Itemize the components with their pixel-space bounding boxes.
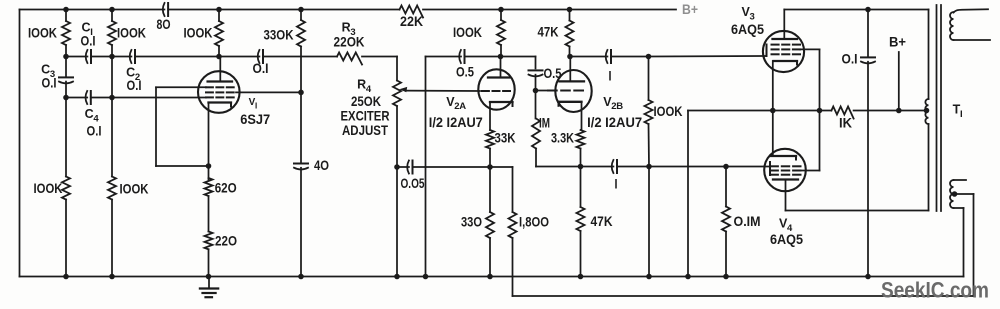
- wire 0.05 to cathode node (crosses x425.5): [413, 166, 491, 168]
- V3 plate bar: [773, 38, 798, 40]
- capacitor 0.5 no.1: [459, 50, 461, 63]
- resistor 100K no.1: [62, 21, 70, 45]
- svg-text:IOOK: IOOK: [184, 25, 213, 41]
- wire 1M down from grid node: [535, 91, 537, 119]
- capacitor 0.05: [407, 161, 409, 174]
- wire y166.5 to 0.1M node (crosses x688): [649, 166, 726, 168]
- wire top rail segment 1: [20, 9, 165, 11]
- wire suppressor to cathode node: [156, 165, 209, 167]
- wire 40 cap to ground rail: [300, 168, 302, 277]
- potentiometer R4 250K EXCITER ADJUST: [393, 81, 401, 106]
- V3 screen lead right: [800, 48, 820, 50]
- capacitor 40: [294, 163, 308, 165]
- wire y97.5 node to C4: [66, 97, 87, 99]
- wire 1K to B+/center tap: [854, 110, 924, 112]
- resistor 220: [205, 232, 213, 250]
- node B+ lead: [896, 108, 902, 114]
- node x112 y97.5: [109, 95, 115, 101]
- wire 0.1M to ground: [725, 232, 727, 277]
- resistor 1M: [532, 119, 540, 149]
- V1 grid row 2 (screen): [206, 91, 213, 93]
- tube V2B 1/2 12AU7 envelope: [555, 70, 591, 112]
- svg-text:4O: 4O: [314, 157, 329, 173]
- svg-text:IOOK: IOOK: [453, 24, 482, 40]
- wire 220 to ground rail: [208, 249, 210, 276]
- svg-text:22O: 22O: [215, 232, 237, 248]
- wire V3 plate top rail to T1: [784, 9, 928, 11]
- node cathodes y110.5: [770, 108, 776, 114]
- T1 core line 1: [936, 5, 938, 211]
- V3 grid row1: [772, 44, 779, 46]
- T1 secondary bottom lead: [954, 207, 964, 209]
- wire V2B plate to 1uF cap: [570, 56, 607, 58]
- wire 0.1 cap to R3: [263, 56, 337, 58]
- node top rail 47K: [567, 7, 573, 13]
- resistor 0.1M (V4 grid leak): [722, 207, 730, 232]
- node V3 grid / 100K: [646, 54, 652, 60]
- resistor 100K no.6: [108, 177, 116, 200]
- node T1 secondary tap: [952, 191, 958, 197]
- svg-text:22K: 22K: [400, 13, 423, 29]
- V1 grid row 1 (suppressor): [206, 86, 213, 88]
- V2B plate lead: [569, 57, 571, 82]
- capacitor 0.5 no.2: [529, 69, 543, 71]
- V1 screen wire to 330K line: [236, 91, 301, 93]
- wire 0.1 cap down to ground (crosses y110.5 and y210.5): [867, 62, 869, 277]
- svg-text:6SJ7: 6SJ7: [240, 111, 270, 127]
- wire node to 1800 top corner: [490, 166, 513, 168]
- V3 grid row2 (screen): [772, 48, 779, 50]
- wire between 620 and 220: [208, 196, 210, 232]
- V3 grid row3: [772, 53, 779, 55]
- T1 core line 2: [940, 5, 942, 211]
- capacitor 80 (series in top rail): [163, 3, 165, 16]
- wire cathode bus corner x688 (crosses y166.5): [687, 111, 689, 277]
- svg-text:6AQ5: 6AQ5: [731, 21, 764, 37]
- node top rail / 100K no.2: [109, 7, 115, 13]
- svg-text:I: I: [615, 176, 618, 192]
- wire secondary bottom to ground rail: [963, 208, 965, 277]
- node R4 line ground: [394, 274, 400, 280]
- node V2A plate y56.5: [498, 54, 504, 60]
- V4 grid stub: [769, 162, 771, 175]
- capacitor C1 0.1: [86, 50, 88, 63]
- V2A plate bar: [488, 76, 510, 78]
- node V2B plate y56.5: [567, 54, 573, 60]
- wire 330 to ground: [489, 238, 491, 277]
- svg-text:O.I: O.I: [127, 77, 142, 93]
- wire 1M bottom corner to 3.3K node: [535, 149, 537, 167]
- wire cap to 100K line node: [617, 166, 649, 168]
- resistor 100K no.3: [215, 21, 223, 46]
- resistor 100K no.4 (V2A plate load): [497, 20, 505, 45]
- wire R3 to corner: [362, 56, 397, 58]
- wire x425.5 vertical to ground (crosses wiper wire and 0.05 row): [425, 57, 427, 277]
- node V2B grid: [533, 88, 539, 94]
- tube V2A 1/2 12AU7 envelope: [478, 69, 514, 109]
- wire y56.5 node to C1: [66, 56, 87, 58]
- V4 cathode hook right: [795, 156, 797, 160]
- wire cap to V3 grid node: [611, 56, 649, 58]
- node x66 y97.5: [63, 95, 69, 101]
- node top rail 330K: [298, 7, 304, 13]
- node 0.1 cap top: [865, 7, 871, 13]
- V4 grid row3: [771, 174, 778, 176]
- wire C4 to V1 grid: [91, 97, 206, 99]
- capacitor C2 0.1: [130, 50, 132, 63]
- svg-text:B+: B+: [682, 2, 698, 17]
- svg-text:ADJUST: ADJUST: [342, 122, 388, 138]
- svg-text:62O: 62O: [215, 179, 237, 195]
- V4 plate lead down: [785, 180, 787, 211]
- wire T1 primary top lead down: [928, 10, 930, 100]
- T1 secondary upper winding: [950, 12, 953, 40]
- V1 cathode hook right: [230, 103, 232, 107]
- svg-text:O.I: O.I: [81, 33, 96, 49]
- V2A cathode hook right: [512, 102, 514, 106]
- node 330 ground: [487, 274, 493, 280]
- wire 330K down to screen node and 40uF (crosses y56.5): [300, 47, 302, 164]
- capacitor C4 0.1: [86, 91, 88, 104]
- resistor 100K no.7 (V3 grid leak): [645, 100, 653, 124]
- wire top rail segment 3 to B+: [423, 9, 676, 11]
- V1 suppressor wire corner: [156, 86, 206, 88]
- node x66 ground rail: [63, 274, 69, 280]
- svg-text:O.IM: O.IM: [734, 213, 761, 229]
- svg-text:I,8OO: I,8OO: [519, 214, 549, 230]
- resistor 100K no.2: [108, 21, 116, 45]
- node screen / 330K line: [298, 90, 304, 96]
- wire stub x66 top: [65, 10, 67, 22]
- svg-text:3.3K: 3.3K: [551, 130, 574, 146]
- wire x649 to ground rail: [648, 167, 650, 277]
- node x112 ground rail: [109, 274, 115, 280]
- V2A cathode bar: [490, 101, 513, 103]
- wire 100K no.7 to y166.5 node: [648, 124, 651, 167]
- node x425.5 ground: [423, 274, 429, 280]
- node top rail 100K no.3: [216, 7, 222, 13]
- svg-text:O.I: O.I: [842, 51, 858, 67]
- V4 grid row2 (screen): [771, 170, 778, 172]
- svg-text:SeekIC.com: SeekIC.com: [881, 278, 989, 303]
- node x649 ground: [646, 274, 652, 280]
- node T1 center tap: [924, 108, 930, 114]
- wire suppressor down leg x156: [155, 87, 157, 166]
- wire 3.3K to node: [580, 149, 582, 167]
- tube V4 6AQ5 envelope: [764, 149, 806, 191]
- wire feedback line y293: [513, 295, 974, 297]
- T1 secondary upper lead 2: [954, 39, 991, 41]
- capacitor 1 no.2 (to V4 grid): [612, 160, 614, 173]
- resistor 3.3K: [577, 130, 585, 148]
- wiper wire to V2A grid: [406, 90, 481, 92]
- V1 grid row 3 (control grid): [206, 96, 213, 98]
- capacitor 0.1 (V1 output coupling): [258, 50, 260, 63]
- node top rail 100K no.4: [498, 7, 504, 13]
- resistor 330: [486, 212, 494, 238]
- svg-text:O.I: O.I: [42, 75, 57, 91]
- wire x66 to ground rail: [65, 200, 67, 277]
- node 0.1 cap ground: [865, 274, 871, 280]
- wire feedback vertical x973.5: [973, 194, 975, 296]
- node R4 bottom / 0.05 cap: [394, 164, 400, 170]
- wire node to 0.05 cap: [397, 166, 409, 168]
- wire corner down to 1800: [512, 167, 514, 212]
- node cathode V2A / 0.05 / 330 / 1800: [487, 164, 493, 170]
- V2B grid wire solid part: [536, 90, 549, 92]
- resistor 47K no.2: [577, 207, 585, 231]
- svg-text:IOOK: IOOK: [28, 25, 57, 41]
- T1 primary lower lead: [928, 124, 930, 211]
- wire x66 below C3: [65, 82, 67, 177]
- ground symbol: [208, 277, 210, 289]
- svg-text:47K: 47K: [538, 24, 559, 40]
- wire V1 plate to 0.1 cap: [219, 56, 259, 58]
- node x112 y56.5: [109, 54, 115, 60]
- capacitor 0.1 (V3 plate to ground): [861, 56, 875, 58]
- node y166.5 x649: [646, 164, 652, 170]
- svg-text:IOOK: IOOK: [120, 180, 149, 196]
- node y166.5 0.1M: [723, 164, 729, 170]
- R4 wiper arrow: [399, 87, 407, 92]
- T1 secondary upper lead 1: [954, 9, 989, 12]
- svg-text:I/2 I2AU7: I/2 I2AU7: [429, 114, 483, 130]
- V1 cathode lead down: [208, 103, 210, 180]
- V4 grid row1: [771, 165, 778, 167]
- svg-text:IK: IK: [839, 115, 852, 131]
- node 47K no.2 ground: [578, 274, 584, 280]
- wire corner down to 0.5 no.2: [535, 57, 537, 69]
- wire cathode bus y110.5: [688, 110, 831, 112]
- wire V3 grid node down: [648, 57, 650, 101]
- V2A plate lead: [500, 57, 502, 78]
- V4 screen lead right: [801, 170, 820, 172]
- wire 0.5 cap to V2A plate node: [465, 56, 536, 58]
- node 3.3K bottom / 1M / 47K / 1uF: [578, 164, 584, 170]
- node 0.1M ground: [723, 274, 729, 280]
- resistor 33K: [486, 130, 494, 148]
- capacitor C3 0.1: [59, 76, 73, 78]
- wire C1 to x112: [91, 56, 131, 58]
- svg-text:O.O5: O.O5: [401, 175, 425, 191]
- wire R4 bottom to ground rail: [396, 106, 398, 277]
- wire corner down to R4: [396, 57, 398, 81]
- T1 primary winding: [925, 99, 928, 124]
- wire x112 middle: [111, 45, 113, 177]
- wire top rail segment 2: [168, 9, 399, 11]
- svg-text:O.I: O.I: [87, 122, 102, 138]
- capacitor 1 (to V3 grid): [606, 50, 608, 63]
- wire 0.1M top stub: [725, 167, 727, 207]
- wire 33K to node: [489, 149, 491, 168]
- resistor 1K (screen dropping): [831, 107, 853, 119]
- V1 plate bar: [208, 80, 232, 82]
- wire 0.5 no.2 to V2B grid node: [535, 75, 537, 91]
- node x66 y56.5: [63, 54, 69, 60]
- wire 47K no.2 to ground: [580, 231, 582, 277]
- node x688 ground: [685, 274, 691, 280]
- svg-text:IOOK: IOOK: [34, 180, 63, 196]
- wire y166.5 to V4 grid: [726, 166, 770, 168]
- V2A cathode lead down: [489, 102, 491, 130]
- node V1 plate y56.5: [216, 54, 222, 60]
- svg-text:6AQ5: 6AQ5: [770, 231, 803, 247]
- svg-text:O.I: O.I: [253, 60, 269, 76]
- wire x112 to ground rail: [111, 200, 113, 277]
- svg-text:O.5: O.5: [456, 64, 474, 80]
- svg-text:47K: 47K: [591, 213, 613, 229]
- V4 cathode bar: [771, 155, 796, 157]
- svg-text:IOOK: IOOK: [117, 25, 146, 41]
- node V1 cathode junction: [206, 163, 212, 169]
- wire V4 plate to T1 primary bottom (crosses x868): [786, 210, 929, 212]
- svg-text:33OK: 33OK: [264, 27, 294, 43]
- wire y166.5: 3.3K node to 1uF no.2: [581, 166, 614, 168]
- resistor 22K: [400, 6, 424, 18]
- V2B grid dashes: [548, 90, 557, 92]
- V3 grid stub: [766, 45, 768, 57]
- wire x66 to node: [65, 45, 67, 77]
- node screens y110.5: [817, 108, 823, 114]
- V3 cathode hook right: [796, 61, 798, 65]
- wire 0.1 cap top stub: [867, 10, 869, 57]
- svg-text:22OK: 22OK: [334, 34, 365, 50]
- V1 cathode bar: [209, 101, 232, 103]
- T1 secondary lower winding: [950, 180, 953, 208]
- V4 plate bar: [773, 178, 798, 180]
- resistor 330K: [297, 20, 305, 47]
- node top rail / 100K no.1: [63, 7, 69, 13]
- svg-text:O.5: O.5: [544, 65, 562, 81]
- tube V3 6AQ5 envelope: [763, 31, 804, 72]
- svg-text:IM: IM: [539, 115, 550, 131]
- V3 plate lead up: [783, 10, 785, 40]
- V3/V4 cathode lead x772.8: [772, 61, 774, 156]
- node cathode string ground: [206, 274, 212, 280]
- svg-text:I/2 I2AU7: I/2 I2AU7: [587, 114, 642, 130]
- wire 1800 down across rail to feedback line: [512, 238, 514, 296]
- resistor 620: [205, 178, 213, 196]
- svg-text:33O: 33O: [461, 214, 482, 230]
- wire C2 to V1 plate node: [135, 56, 219, 58]
- wire left edge vertical: [19, 10, 21, 277]
- V2B plate bar: [560, 80, 585, 82]
- tube V1 6SJ7 envelope: [198, 71, 240, 113]
- wire 0.5 cap line top corner: [426, 56, 462, 58]
- wire secondary tap lead: [955, 193, 974, 195]
- svg-text:I: I: [609, 68, 612, 84]
- svg-text:B+: B+: [889, 34, 906, 50]
- wire node down to 330: [489, 167, 491, 212]
- node 330K line ground: [298, 274, 304, 280]
- V2A grid dashes: [482, 90, 489, 92]
- resistor 47K (V2B plate load): [566, 21, 574, 47]
- svg-text:8O: 8O: [157, 16, 171, 32]
- V3 cathode bar: [774, 60, 798, 62]
- wire V3 grid node to tube: [649, 55, 767, 58]
- wire node down to 47K no.2: [580, 167, 582, 208]
- V2B cathode bar: [559, 101, 582, 103]
- svg-text:33K: 33K: [495, 130, 516, 146]
- wire B+ terminal lead: [898, 52, 900, 111]
- resistor R3 220K: [337, 53, 362, 65]
- V1 plate lead: [219, 57, 221, 82]
- V2B cathode lead down: [581, 102, 583, 130]
- svg-text:IOOK: IOOK: [654, 103, 683, 119]
- T1 secondary lower top stub: [954, 179, 967, 181]
- wire screens bus x819.5: [819, 49, 821, 170]
- resistor 100K no.5: [62, 177, 70, 200]
- wire bottom ground rail: [20, 276, 964, 278]
- resistor 1,800: [509, 212, 517, 238]
- V2B cathode hook left: [558, 102, 560, 106]
